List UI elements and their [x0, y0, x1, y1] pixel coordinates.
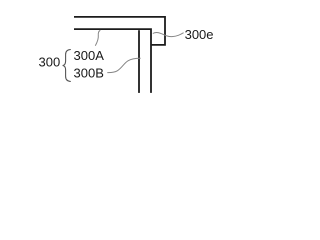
wall 300B left edge — [138, 30, 140, 93]
layer 300A bottom line and wall right edge — [74, 29, 151, 93]
svg-text:300: 300 — [39, 54, 61, 69]
svg-text:300e: 300e — [185, 27, 214, 42]
leader for 300B — [107, 58, 140, 72]
leader for 300e — [153, 32, 184, 36]
svg-text:300B: 300B — [74, 65, 104, 80]
leader for 300A — [95, 30, 100, 46]
brace grouping 300A/300B — [63, 50, 71, 82]
svg-text:300A: 300A — [74, 48, 105, 63]
layer 300A top outline with step 300e — [74, 17, 165, 45]
